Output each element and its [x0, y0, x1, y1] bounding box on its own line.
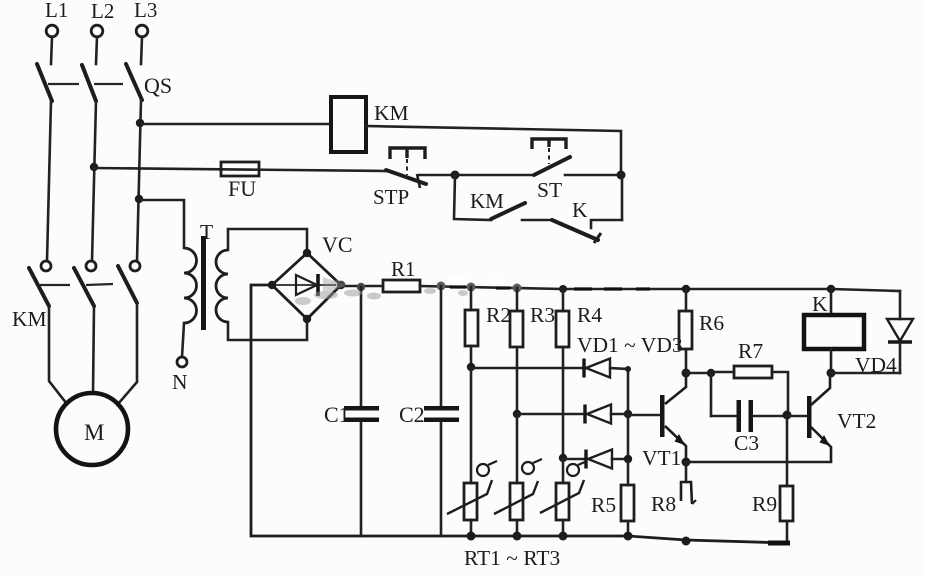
svg-text:KM: KM	[374, 101, 409, 125]
motor M	[56, 393, 128, 465]
svg-text:VC: VC	[322, 232, 353, 257]
contact KM auxiliary	[470, 189, 525, 219]
svg-text:R4: R4	[577, 303, 602, 327]
svg-text:N: N	[172, 370, 188, 394]
resistor R7	[686, 339, 788, 415]
svg-text:VD4: VD4	[855, 353, 897, 377]
svg-text:FU: FU	[228, 176, 256, 201]
wire through fuse	[94, 168, 386, 171]
svg-text:KM: KM	[470, 189, 504, 213]
svg-text:R5: R5	[591, 493, 616, 517]
resistor R3	[510, 284, 555, 415]
switch QS	[37, 64, 172, 101]
node VD3 anode	[624, 455, 632, 463]
resistor R2	[465, 283, 511, 368]
relay coil K	[804, 285, 864, 373]
node R4 bottom	[559, 454, 567, 462]
svg-text:M: M	[84, 420, 104, 445]
svg-text:L3: L3	[134, 0, 157, 22]
wire emitter bus	[686, 461, 831, 464]
wire DC minus down and bottom rail	[251, 285, 787, 543]
resistor R1	[383, 257, 420, 292]
node relay bottom	[827, 369, 836, 378]
terminal L1	[45, 0, 68, 64]
wire latch up to node B	[621, 175, 624, 220]
node C1 top	[357, 283, 365, 291]
svg-text:R7: R7	[738, 339, 763, 363]
node R3 bottom	[513, 410, 521, 418]
bridge rectifier VC	[268, 232, 353, 323]
terminal L3	[134, 0, 157, 64]
transformer T	[182, 220, 228, 357]
wire STP to node A	[419, 174, 456, 177]
transistor VT2	[787, 374, 876, 462]
svg-text:R3: R3	[530, 303, 555, 327]
node A	[451, 171, 460, 180]
svg-text:STP: STP	[373, 185, 409, 209]
node emitter junction	[682, 458, 691, 467]
svg-text:ST: ST	[537, 178, 562, 202]
diode VD3	[586, 450, 628, 469]
svg-text:R8: R8	[651, 492, 676, 516]
resistor R4	[556, 285, 602, 458]
capacitor C2	[399, 286, 459, 536]
positive rail	[420, 286, 900, 291]
svg-text:C2: C2	[399, 402, 425, 427]
svg-text:RT1 ~ RT3: RT1 ~ RT3	[464, 546, 560, 570]
node on L3 to KM coil	[136, 119, 144, 127]
thermistor RT2	[494, 414, 542, 541]
resistor R6	[679, 285, 724, 373]
capacitor C1	[324, 287, 379, 536]
node C2 top	[437, 282, 446, 291]
contact KM main pole 1	[29, 261, 67, 404]
capacitor C3	[711, 373, 787, 455]
wire bridge to R1	[341, 285, 383, 288]
svg-text:KM: KM	[12, 307, 47, 331]
svg-text:R6: R6	[699, 311, 724, 335]
svg-text:R1: R1	[391, 257, 416, 281]
linkage KM main	[40, 284, 70, 286]
svg-text:C3: C3	[734, 431, 759, 455]
wire to transformer primary	[139, 200, 184, 248]
svg-text:VT2: VT2	[837, 409, 876, 433]
wire L3 phase down	[137, 100, 141, 261]
resistor R9	[752, 416, 793, 543]
wire L1 phase down	[47, 101, 51, 261]
svg-text:QS: QS	[144, 73, 172, 98]
svg-text:R2: R2	[486, 303, 511, 327]
terminal N	[172, 357, 188, 394]
watermark smudges (scan artifacts)	[295, 277, 468, 305]
contact KM main pole 2	[74, 261, 96, 394]
wire VD cathode bus	[627, 369, 630, 485]
node on L3 to transformer	[135, 195, 143, 203]
wire secondary top to bridge	[228, 229, 307, 253]
diode VD4	[831, 291, 913, 377]
wire to KM coil	[140, 123, 331, 126]
thermistor RT3	[540, 459, 587, 541]
wire VD1 row	[471, 367, 584, 370]
svg-text:VT1: VT1	[642, 446, 681, 470]
thermistor RT1	[447, 368, 497, 541]
wire latch branch down	[454, 175, 491, 220]
wire KM coil to right branch	[366, 126, 621, 175]
pushbutton STP	[373, 148, 426, 209]
node VD1 anode corner	[625, 366, 631, 372]
wire L2 phase down	[92, 101, 96, 261]
wire VD3 row	[563, 458, 586, 461]
pushbutton ST	[455, 139, 621, 202]
node VT1 collector	[682, 369, 691, 378]
terminal L2	[91, 0, 114, 64]
resistor R8	[651, 462, 696, 546]
resistor R5	[591, 485, 634, 541]
node VD2 anode	[624, 410, 632, 418]
contact KM main pole 3	[118, 261, 140, 404]
node R2 bottom	[467, 363, 475, 371]
svg-text:K: K	[572, 198, 588, 222]
wire VD2 row	[517, 413, 585, 416]
contact K	[552, 198, 622, 243]
svg-text:R9: R9	[752, 492, 777, 516]
node on L2 to FU	[90, 163, 98, 171]
fuse FU	[221, 162, 259, 201]
transistor VT1	[628, 374, 686, 470]
svg-text:L2: L2	[91, 0, 114, 23]
svg-text:C1: C1	[324, 402, 350, 427]
diode VD1	[584, 359, 628, 378]
wire between KM and K contacts	[522, 219, 552, 222]
svg-text:K: K	[812, 292, 828, 316]
node B	[617, 171, 626, 180]
wire secondary bottom to bridge	[228, 319, 307, 340]
contactor coil KM	[331, 97, 409, 152]
node VT2 base	[783, 411, 792, 420]
diode VD2	[585, 405, 628, 424]
svg-text:L1: L1	[45, 0, 68, 22]
svg-text:VD1 ~ VD3: VD1 ~ VD3	[577, 333, 683, 357]
